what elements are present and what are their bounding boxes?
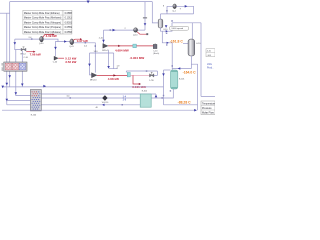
node arrow — [15, 92, 18, 95]
wire V-3 feed stub — [183, 42, 188, 44]
wire right low header y=104.8 — [164, 104, 198, 106]
wire E-100 line4 left — [7, 104, 140, 106]
heat exchanger T2 teal block — [140, 90, 151, 107]
node arrow spread — [165, 25, 168, 28]
wire loop right drop — [109, 53, 118, 69]
node tick — [166, 33, 168, 34]
wire branch x=156 — [155, 94, 157, 98]
wire tee down to mixer MIX-4 — [103, 30, 105, 44]
wire pass3 down x=22.3 — [21, 51, 23, 87]
node arrow — [166, 30, 168, 32]
svg-text:Pressure: Pressure — [202, 107, 212, 110]
svg-text:MIX-10: MIX-10 — [90, 79, 97, 81]
component X1 heater — [153, 43, 159, 54]
heat exchanger LNG-100 — [2, 57, 29, 71]
heat exchanger E-100 dotted — [30, 90, 41, 117]
separator V-3 — [188, 39, 201, 56]
valve 1-7B — [149, 72, 154, 82]
wire h71 — [126, 71, 157, 75]
node tick — [161, 97, 163, 99]
node arrow — [194, 109, 197, 112]
svg-text:MIX-4: MIX-4 — [102, 50, 108, 52]
wire red MIX-10 out — [97, 74, 127, 76]
svg-text:VLV-4: VLV-4 — [20, 54, 26, 56]
svg-text:-0.904 MW: -0.904 MW — [130, 56, 145, 60]
label LNG Product blue — [207, 63, 214, 69]
svg-text:4.09 kW: 4.09 kW — [46, 34, 57, 38]
wire pink continues — [130, 74, 149, 76]
node tick — [70, 97, 72, 99]
svg-text:(Exch): (Exch) — [153, 53, 159, 55]
node arrow left end — [1, 86, 4, 89]
node arrow on top line — [87, 1, 90, 4]
wire feed to valve — [15, 39, 21, 50]
node arrow — [167, 42, 169, 44]
compressor Q-40 — [39, 36, 44, 45]
heat exchanger T1 teal column — [171, 70, 186, 89]
wire red Q-41 duty — [73, 39, 80, 40]
wire cyan1 top feed — [125, 71, 127, 73]
node arrow — [102, 40, 105, 43]
wire loop — [90, 53, 114, 75]
node tick — [166, 10, 168, 12]
wire V-3 liquid to T1 — [172, 68, 191, 70]
wire E-100 feed1 — [7, 100, 31, 102]
svg-text:Master Comp Mole Frac (Nitroge: Master Comp Mole Frac (Nitrogen) — [24, 21, 61, 24]
wire red drop — [133, 75, 139, 84]
wire MIX-4 under-line drop — [108, 50, 110, 67]
wire drop to T1 top x=172.2 — [171, 43, 173, 70]
node tick — [122, 104, 124, 106]
table workbook top-left — [23, 10, 73, 34]
node arrow — [162, 73, 165, 76]
wire K-2 suction — [104, 29, 134, 31]
legend table — [201, 101, 216, 115]
wire T1 left inlet y=70 — [164, 69, 171, 71]
wire red cyan2 to X1 — [136, 45, 153, 47]
svg-text:-88.28 C: -88.28 C — [178, 100, 192, 104]
node arrow — [64, 40, 67, 43]
wire header y=13.9 — [161, 13, 194, 15]
svg-text:Master Comp Mole Frac (Propane: Master Comp Mole Frac (Propane) — [24, 26, 61, 29]
wire Q-10 discharge right — [138, 29, 145, 31]
node arrow — [43, 85, 46, 88]
valve diamond VLV-10 — [102, 95, 109, 104]
mixer MIX-4 — [102, 44, 108, 52]
node tick dark — [146, 33, 148, 35]
wire pass1 vertical x=9.7 — [9, 2, 11, 87]
node tick fitting — [143, 17, 147, 18]
node tick — [95, 45, 96, 47]
svg-text:Master Comp Mole Frac (Ethane): Master Comp Mole Frac (Ethane) — [24, 12, 60, 15]
node arrow — [185, 5, 188, 8]
node arrow — [113, 29, 116, 32]
wire M1 feed from jog — [56, 42, 59, 57]
node tick — [166, 44, 168, 45]
svg-text:E-100: E-100 — [31, 114, 37, 116]
wire bottom long y=110.2 — [2, 109, 196, 111]
wire y=98 to T2 — [41, 97, 140, 99]
node arrow dark — [178, 67, 181, 70]
node arrow — [14, 42, 17, 45]
svg-text:0.0556: 0.0556 — [65, 31, 73, 34]
svg-text:4.68 kW: 4.68 kW — [108, 77, 119, 81]
wire red MIX-4 out — [108, 45, 133, 47]
wire red valve energy — [26, 51, 33, 53]
node arrow — [88, 64, 91, 67]
svg-text:Temperature: Temperature — [202, 102, 215, 105]
mixer MIX-10 — [90, 73, 97, 82]
wire left inlet y=13.2 — [0, 12, 10, 14]
wire bottom header y=86.9 — [2, 86, 163, 88]
node tick — [31, 38, 33, 40]
wire T1 bottom to T2 — [151, 89, 173, 98]
svg-text:Molar Flow: Molar Flow — [202, 111, 214, 114]
wire Q-40 to Q-41 jog — [43, 39, 70, 41]
node arrow — [21, 84, 24, 87]
svg-text:LNG-100: LNG-100 — [2, 62, 4, 71]
svg-text:7.06 kW: 7.06 kW — [30, 52, 41, 56]
svg-text:0.0559: 0.0559 — [65, 26, 73, 29]
separator V-10 — [158, 19, 168, 31]
node arrow — [107, 66, 110, 69]
tee cyan2 — [133, 44, 137, 48]
wire E-100 right y=94 — [41, 93, 156, 95]
wire top corner down to V-10 feed — [152, 2, 158, 23]
svg-text:1-7B: 1-7B — [149, 80, 154, 82]
svg-text:0.0886: 0.0886 — [65, 12, 73, 15]
wire to compressor Q-40 — [15, 38, 40, 40]
node tick — [85, 42, 87, 44]
wire red Q-10 duty — [137, 32, 146, 34]
node arrow up — [155, 95, 158, 98]
wire Q-41 out down x=95.3 — [74, 43, 96, 73]
svg-text:E-102: E-102 — [142, 90, 148, 92]
svg-text:0.97 kW: 0.97 kW — [77, 39, 88, 43]
node tick — [163, 95, 164, 96]
pump Q-1 — [172, 4, 176, 13]
svg-text:3.52 kW: 3.52 kW — [65, 60, 76, 64]
svg-text:3.000 spread: 3.000 spread — [171, 28, 183, 30]
label box spread — [170, 26, 189, 30]
wire pass2 down x=15.8 — [16, 50, 31, 96]
node tick — [170, 90, 171, 91]
wire V-3 bottom — [190, 56, 192, 69]
node arrow left on y104.8 — [102, 104, 105, 107]
svg-text:4.684 MW: 4.684 MW — [115, 49, 129, 53]
wire pump inlet — [167, 6, 173, 14]
node arrow pass1 — [8, 75, 11, 78]
node tick — [110, 29, 112, 31]
wire V-10 top vapor — [160, 14, 162, 20]
node arrow at E-100 feed corner — [6, 99, 9, 102]
wire V-10 bottom out — [161, 23, 173, 31]
wire right edge drop x=201 — [201, 23, 215, 97]
mixer C-40 — [53, 56, 58, 63]
wire V-3 product right — [191, 64, 197, 110]
wire red C-40 duty — [58, 57, 64, 59]
node arrow — [6, 83, 9, 86]
svg-text:E-101: E-101 — [179, 79, 185, 81]
wire top right header y=22.8 — [172, 22, 201, 24]
wire top main line — [10, 1, 153, 3]
valve VLV-4 — [20, 47, 26, 56]
svg-text:-161.8 C: -161.8 C — [170, 39, 184, 43]
svg-text:0.1011: 0.1011 — [65, 17, 73, 20]
wire long drop x=163.5 — [163, 70, 165, 105]
node tick — [146, 70, 148, 72]
compressor Q-10 — [133, 28, 138, 37]
svg-text:-164.0 C: -164.0 C — [183, 71, 197, 75]
node tick — [172, 65, 174, 67]
svg-text:Prod..: Prod.. — [207, 66, 214, 69]
wire riser x=145 — [144, 2, 146, 31]
mini stream table right edge — [206, 49, 215, 57]
wire V-3 riser x=192.3 — [191, 23, 193, 40]
node tick — [171, 20, 173, 22]
node arrow — [54, 47, 57, 50]
wire left vertical x=6.8 — [6, 13, 8, 105]
svg-text:Master Comp Mole Frac (Methane: Master Comp Mole Frac (Methane) — [24, 17, 62, 20]
compressor Q-41 — [69, 39, 74, 48]
wire V-10 liquid down — [162, 31, 172, 43]
wire pump discharge — [176, 6, 193, 14]
tee cyan1 — [127, 73, 130, 77]
svg-text:VLV-10: VLV-10 — [102, 102, 109, 104]
svg-text:0.8031: 0.8031 — [65, 21, 73, 24]
node arrow — [144, 23, 147, 25]
wire red Q-40 duty — [43, 35, 53, 38]
